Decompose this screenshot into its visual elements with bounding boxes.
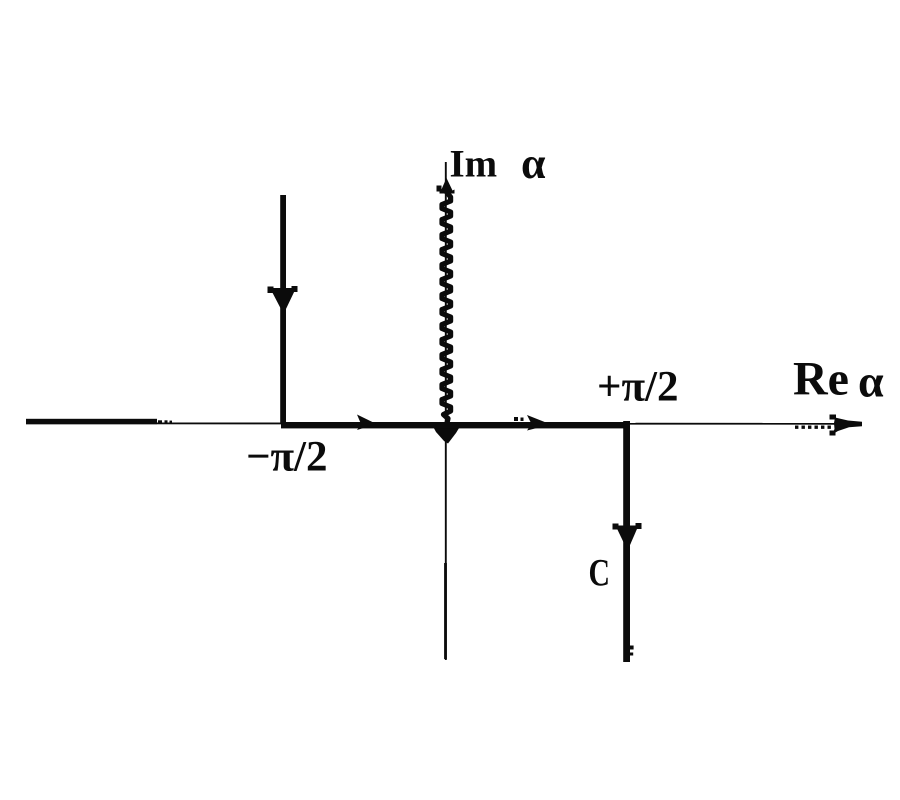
contour: left vertical segment at Re = -pi/2 [280,195,286,424]
contour arrow 1 (rightward) [357,415,377,431]
Im axis thin line [445,162,447,660]
contour: horizontal segment along Re axis [281,417,630,428]
contour right: downward arrowhead [613,523,642,549]
svg-text:Im: Im [450,143,498,186]
contour left: downward arrowhead [268,286,298,311]
Re axis thin line [26,422,846,425]
svg-text:α: α [521,139,546,188]
svg-text:Re: Re [793,353,849,406]
svg-text:C: C [589,552,611,595]
Re axis right arrowhead [830,415,863,436]
label Im alpha [450,139,547,188]
branch cut wavy line on Im axis [442,192,451,423]
label C [589,552,611,595]
contour: right vertical segment at Re = +pi/2 (contour C) [623,421,633,662]
Im axis top arrowhead [437,178,455,194]
svg-text:+π/2: +π/2 [597,364,679,411]
label Re alpha [793,353,884,407]
contour arrow 2 (rightward) [527,415,551,431]
origin blob / downward arrowhead at origin [433,427,460,444]
label +pi/2 [597,364,679,411]
label -pi/2 [246,434,328,481]
Re axis dotted segment near right arrow [795,426,832,429]
svg-text:α: α [858,356,884,407]
svg-text:−π/2: −π/2 [246,434,328,481]
Re axis left thick segment [26,419,172,424]
